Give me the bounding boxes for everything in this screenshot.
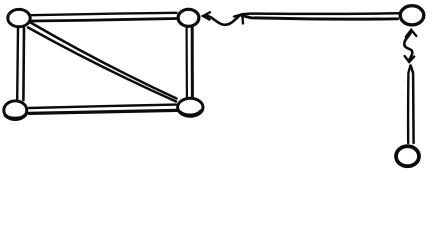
edge B-D middle vertical double line [187,28,193,98]
squiggle arrow between node B and left tip of detached edge [203,12,243,25]
edge A-D diagonal double line [28,23,177,102]
edge A-B top horizontal double line [31,13,177,21]
node E (top-right) [400,6,424,25]
detached edge to F: vertical double line with tapered top tip [408,66,414,144]
node F (bottom-right) [396,146,419,166]
edge A-C left vertical double line [17,28,24,100]
node C (bottom-left) [4,101,27,120]
node A (top-left) [8,9,30,26]
squiggle arrow between node E and top tip of detached vertical edge [404,30,416,62]
edge C-D bottom horizontal double line [29,105,177,114]
node D (bottom-middle) [178,98,203,116]
node B (top-middle) [178,9,199,26]
detached edge to E: long horizontal double line with tapered left tip [242,13,399,19]
